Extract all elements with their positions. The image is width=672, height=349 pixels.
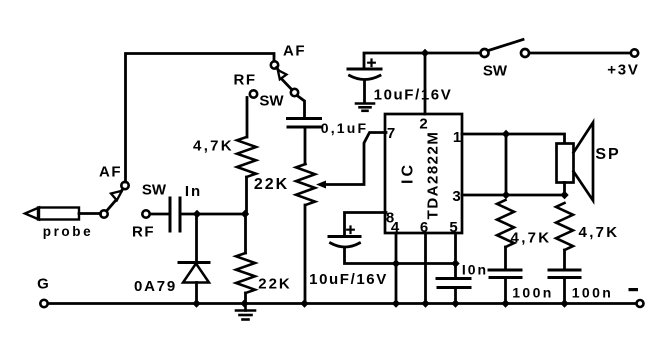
wire diode to ground rail xyxy=(195,283,198,304)
svg-text:10uF/16V: 10uF/16V xyxy=(374,87,453,104)
switch SW2 arm with arrow xyxy=(277,68,280,72)
wire R4 to 100n xyxy=(504,247,507,270)
wire pin 2 to top rail xyxy=(424,53,427,114)
switch SW2 AF contact xyxy=(271,61,278,68)
capacitor 100n (right) plate1 xyxy=(549,269,580,272)
wire R5 to 100n xyxy=(563,250,566,270)
svg-text:22K: 22K xyxy=(258,276,292,293)
wire ground rail xyxy=(48,302,637,305)
wire capacitor In to node xyxy=(181,213,245,216)
junction pin3/speaker xyxy=(560,191,568,199)
junction diode/rail xyxy=(192,299,200,307)
wire top supply rail from 10uF corner to power switch xyxy=(364,53,480,68)
junction 100n-right/rail xyxy=(560,299,568,307)
junction at pin4 line xyxy=(392,259,400,267)
wire node down to diode xyxy=(195,214,198,262)
potentiometer wiper arrow xyxy=(316,181,326,189)
junction 100n-left/rail xyxy=(501,299,509,307)
junction pin6/rail xyxy=(421,299,429,307)
terminal G circle xyxy=(40,300,47,307)
node junction at diode branch xyxy=(193,210,201,218)
junction at pin5 line xyxy=(451,259,459,267)
capacitor 10uF upper flat plate xyxy=(348,68,381,71)
capacitor 10n plate1 xyxy=(437,277,470,280)
svg-text:3: 3 xyxy=(452,188,460,205)
svg-text:4,7K: 4,7K xyxy=(511,230,552,247)
label minus xyxy=(629,288,639,291)
svg-text:SP: SP xyxy=(595,146,620,163)
capacitor 10n plate2 xyxy=(438,286,470,289)
wire pin 1 to speaker xyxy=(462,134,565,143)
capacitor 10uF lower flat plate xyxy=(329,235,360,238)
svg-text:IC: IC xyxy=(400,162,417,184)
terminal +3V circle xyxy=(631,49,638,56)
switch SW1 common contact (probe) xyxy=(100,210,107,217)
op-amp IC U1 TDA2822M body xyxy=(385,114,462,233)
wire probe to switch xyxy=(79,212,101,215)
diode OA79 triangle xyxy=(183,264,209,283)
svg-text:6: 6 xyxy=(420,219,428,236)
wire RF selector contact down xyxy=(246,98,249,138)
svg-text:I0n: I0n xyxy=(462,262,488,278)
wire speaker bottom to pin 3 wire xyxy=(563,183,566,196)
wire pin 3 to speaker bottom xyxy=(462,194,565,197)
wire: probe AF line up and across top-left xyxy=(126,54,275,183)
wire wiper to IC pin 7 xyxy=(324,133,386,185)
resistor R4 4,7K (left of pair) xyxy=(497,200,514,247)
ground symbol below rail xyxy=(236,304,255,320)
junction pin1/4,7K branch xyxy=(502,130,510,138)
svg-text:4,7K: 4,7K xyxy=(579,224,620,241)
capacitor In (series coupling) xyxy=(169,198,172,231)
potentiometer R3 22K body xyxy=(296,164,315,205)
svg-text:RF: RF xyxy=(234,72,257,89)
svg-text:22K: 22K xyxy=(254,176,289,193)
wire RF terminal to capacitor In xyxy=(150,213,168,216)
capacitor 10uF/16V (lower) plus sign xyxy=(347,227,354,234)
probe body xyxy=(38,208,79,220)
wire switch to +3V terminal xyxy=(529,52,631,55)
svg-text:4,7K: 4,7K xyxy=(193,138,234,155)
resistor R1 4,7K xyxy=(237,137,256,177)
wire SW2 common to 0,1uF xyxy=(297,96,305,118)
junction 22K/rail xyxy=(240,299,248,307)
wire 0,1uF to potentiometer xyxy=(304,128,307,164)
wire pot bottom to rail xyxy=(304,205,307,304)
terminal minus circle xyxy=(637,300,644,307)
capacitor 0,1uF plate2 xyxy=(288,126,321,129)
svg-text:2: 2 xyxy=(419,116,427,133)
wire pin 5 down to 10n xyxy=(454,233,457,278)
svg-text:SW: SW xyxy=(142,182,167,199)
node junction at 22K branch xyxy=(241,210,249,218)
resistor R5 4,7K (right of pair) xyxy=(556,203,573,250)
probe tip xyxy=(25,208,39,220)
speaker SP driver body xyxy=(557,144,574,183)
switch SW power: right contact xyxy=(521,49,529,57)
switch SW power: arm xyxy=(489,40,524,51)
svg-text:7: 7 xyxy=(387,125,395,142)
junction pin2/top rail xyxy=(421,49,429,57)
wire 100n to rail xyxy=(504,278,507,304)
svg-text:probe: probe xyxy=(43,224,94,239)
svg-text:1: 1 xyxy=(453,129,461,146)
wire resistor to node xyxy=(245,177,248,214)
svg-text:SW: SW xyxy=(483,63,508,80)
wire pin 6 down to rail xyxy=(424,233,427,304)
wire 100n right to rail xyxy=(563,278,566,304)
svg-text:SW: SW xyxy=(259,93,284,110)
resistor R2 22K xyxy=(236,253,255,293)
wire pin 4 down to rail xyxy=(395,233,398,304)
capacitor 0,1uF plate1 xyxy=(288,117,321,120)
switch SW2 common contact xyxy=(291,89,298,96)
capacitor 100n (left) plate1 xyxy=(489,269,521,272)
switch SW2 RF contact xyxy=(250,90,257,97)
capacitor 100n (right) plate2 xyxy=(549,276,580,279)
capacitor C 10uF/16V (upper) plus sign xyxy=(368,60,375,67)
wire 10uF lower to pin4/pin5 line xyxy=(345,248,456,264)
svg-text:TDA2822M: TDA2822M xyxy=(425,131,442,220)
wire pin 8 to lower 10uF xyxy=(345,213,387,236)
svg-text:10uF/16V: 10uF/16V xyxy=(309,271,388,288)
svg-text:100n: 100n xyxy=(572,285,614,301)
diode OA79 cathode bar xyxy=(179,261,209,264)
wire 10n to rail xyxy=(454,288,457,304)
svg-text:AF: AF xyxy=(99,164,122,181)
svg-text:0,1uF: 0,1uF xyxy=(321,120,369,136)
switch SW power: left contact xyxy=(481,49,489,57)
wire pin1 branch down to pin3 wire xyxy=(505,134,508,195)
ground symbol (top cap) xyxy=(356,104,374,111)
switch SW1 probe selector: AF contact xyxy=(121,182,128,189)
svg-text:0A79: 0A79 xyxy=(134,278,177,295)
junction pin3/R4 branch xyxy=(502,191,510,199)
switch SW1 arm with arrow from probe to AF xyxy=(107,200,117,211)
wire 22K to rail xyxy=(244,293,247,304)
wire 10uF to ground symbol xyxy=(363,80,366,102)
svg-text:G: G xyxy=(37,276,49,293)
junction pot/rail xyxy=(300,299,308,307)
svg-text:AF: AF xyxy=(283,43,306,60)
wire node down to 22K xyxy=(244,214,247,253)
svg-text:100n: 100n xyxy=(512,285,554,301)
capacitor 10uF upper curved plate xyxy=(350,76,381,80)
capacitor 10uF lower curved plate xyxy=(331,243,360,247)
svg-text:RF: RF xyxy=(132,224,155,241)
junction 10n/rail xyxy=(451,299,459,307)
svg-text:+3V: +3V xyxy=(607,62,640,79)
junction pin4/rail xyxy=(392,299,400,307)
speaker SP cone xyxy=(574,123,594,201)
svg-text:In: In xyxy=(185,183,202,200)
capacitor 100n (left) plate2 xyxy=(490,276,521,279)
terminal RF input circle xyxy=(142,210,149,217)
